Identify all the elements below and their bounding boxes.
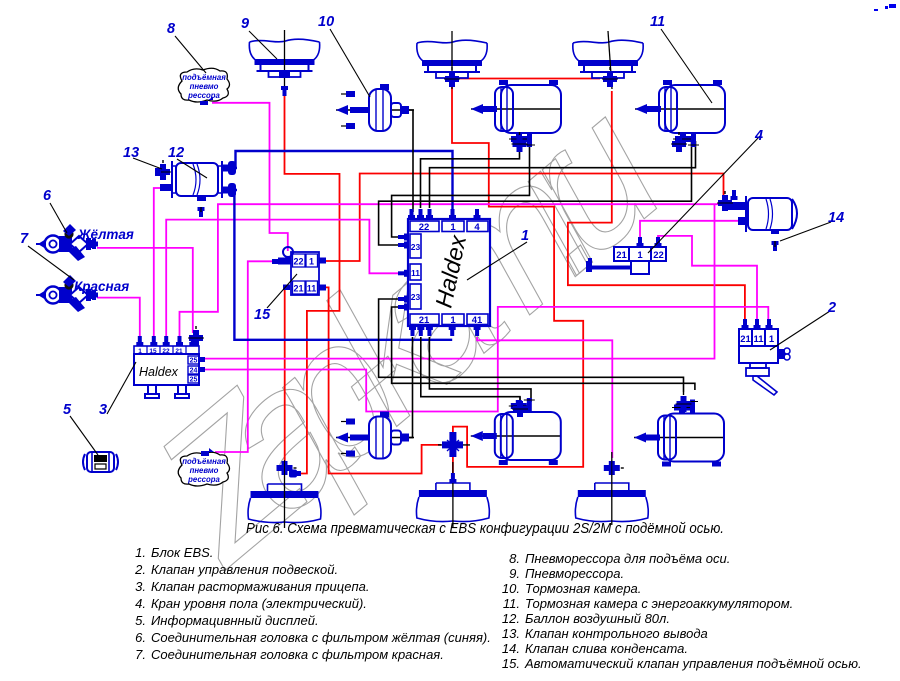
svg-text:6: 6 [43, 188, 52, 204]
wire magenta: floor level valve port1 to reservoir 14 [640, 221, 741, 242]
svg-text:9: 9 [241, 16, 249, 32]
svg-text:Соединительная головка с фильт: Соединительная головка с фильтром красна… [151, 647, 444, 662]
svg-text:Клапан управления подвеской.: Клапан управления подвеской. [151, 562, 338, 577]
svg-text:23: 23 [411, 242, 421, 252]
leader 6 [50, 203, 67, 233]
svg-text:11: 11 [650, 14, 665, 30]
svg-text:Автоматический клапан управлен: Автоматический клапан управления подъёмн… [524, 656, 862, 671]
svg-text:21: 21 [740, 334, 751, 345]
leader 4 [648, 136, 760, 253]
wire magenta: EBS port41 to lifting axle air spring [477, 337, 612, 458]
svg-text:Пневморессора для подъёма оси.: Пневморессора для подъёма оси. [525, 551, 730, 566]
reservoir left lower fitting [160, 184, 172, 191]
wire magenta: tee down to release valve port 25 [205, 204, 715, 358]
reservoir 14 [717, 190, 797, 251]
trailer release valve 3 [134, 326, 205, 398]
svg-text:10.: 10. [502, 581, 520, 596]
leader 2 [770, 311, 830, 350]
EBS unit 1 [398, 209, 490, 336]
bottom air spring left [248, 484, 321, 523]
wire magenta: red coupling head to valve 3 [97, 298, 140, 339]
wire black: EBS top to chamber C right port [430, 141, 696, 208]
bottom air spring centre [417, 483, 490, 522]
svg-text:Клапан слива конденсата.: Клапан слива конденсата. [525, 641, 688, 656]
svg-text:1: 1 [769, 334, 775, 345]
chamber 11 with energy accumulator top right [635, 80, 725, 147]
floor level valve 4 [586, 237, 666, 274]
air spring top no3 [573, 40, 643, 78]
svg-text:13.: 13. [502, 626, 520, 641]
leader 9 [249, 31, 277, 59]
leader 14 [780, 222, 831, 241]
information display 5 [83, 452, 118, 472]
svg-text:25: 25 [190, 377, 198, 384]
lever of valve 4 [590, 266, 631, 270]
wire black: EBS bottom to bottom chamber B port [421, 337, 520, 405]
svg-text:Клапан растормаживания прицепа: Клапан растормаживания прицепа. [151, 579, 369, 594]
coupling head 6 yellow [36, 224, 96, 261]
air spring 9 top no1 [249, 39, 319, 77]
svg-text:Haldex: Haldex [139, 365, 179, 379]
svg-text:1: 1 [637, 250, 643, 261]
svg-text:Баллон воздушный 80л.: Баллон воздушный 80л. [525, 611, 670, 626]
corner mark [874, 4, 896, 11]
svg-text:14: 14 [828, 210, 844, 226]
svg-text:4: 4 [474, 222, 480, 233]
leader 3 [107, 362, 136, 414]
leader 13 [133, 158, 162, 169]
wire magenta: top lifting air bag cloud to valve 15 [212, 103, 288, 251]
svg-text:Красная: Красная [74, 279, 129, 294]
svg-text:11: 11 [753, 334, 764, 345]
test valve 13 and reservoir 12 [155, 160, 236, 217]
lifting axle cloud label bottom [178, 448, 229, 486]
EBS stubs [408, 209, 415, 219]
bottom centre brake chamber [336, 412, 414, 459]
svg-text:рессора: рессора [187, 91, 220, 100]
bottom chamber with accumulator left [471, 398, 561, 465]
leader 7 [28, 246, 74, 280]
wire black: EBS left 23b to bottom right chamber port1 [379, 299, 684, 392]
svg-text:15: 15 [254, 307, 271, 323]
svg-text:14.: 14. [502, 641, 520, 656]
leader 12 [177, 159, 207, 178]
svg-text:11: 11 [307, 284, 317, 294]
svg-text:23: 23 [411, 292, 421, 302]
svg-text:9.: 9. [509, 566, 520, 581]
svg-text:21: 21 [419, 315, 430, 326]
svg-text:1: 1 [450, 222, 456, 233]
svg-text:Клапан контрольного вывода: Клапан контрольного вывода [525, 626, 708, 641]
svg-text:8: 8 [167, 21, 176, 37]
wire magenta: yellow coupling head to valve 3 [97, 248, 193, 333]
wire magenta: valve 3 supply to reservoir 14 [180, 204, 724, 339]
bottom air spring right (lifting axle) [575, 483, 648, 522]
svg-text:4: 4 [754, 128, 763, 144]
svg-text:2.: 2. [134, 562, 146, 577]
svg-text:22: 22 [293, 257, 303, 267]
wire red: cross fitting down to bottom centre air spring [452, 457, 454, 477]
legs [145, 385, 159, 398]
svg-text:5: 5 [63, 402, 72, 418]
wire red: top air spring 9 net to bottom-left air spring side port [285, 86, 340, 474]
wire red: valve 15 port1 to reservoir 14 [320, 174, 724, 262]
wire black: chamber 10 to EBS top port 22a [406, 110, 413, 212]
svg-text:Блок EBS.: Блок EBS. [151, 545, 213, 560]
wire black: EBS left 23a2 to chamber C left port [379, 141, 692, 245]
wire magenta: valve 3 port 24 to suspension valve 2 port 1 [205, 307, 768, 412]
svg-text:22: 22 [653, 250, 664, 261]
upper left port with test valve [728, 202, 746, 210]
svg-text:25: 25 [190, 358, 198, 365]
svg-text:1: 1 [450, 315, 456, 326]
svg-text:15: 15 [149, 348, 157, 355]
svg-text:13: 13 [123, 145, 139, 161]
svg-text:11.: 11. [503, 596, 520, 611]
wire black: EBS bottom to bottom chamber B port2 [429, 337, 531, 402]
svg-text:Тормозная камера с энергоаккум: Тормозная камера с энергоаккумулятором. [525, 596, 793, 611]
wire red: air spring 3 drop to suspension valve 2 port 21 [568, 91, 745, 324]
svg-text:11: 11 [411, 268, 420, 278]
svg-text:21: 21 [293, 284, 303, 294]
svg-text:Соединительная головка с фильт: Соединительная головка с фильтром жёлтая… [151, 630, 491, 645]
svg-text:24: 24 [190, 368, 198, 375]
svg-text:12: 12 [168, 145, 184, 161]
wire blue: reservoir 12 to EBS bottom port 1 [234, 190, 452, 340]
coupling head 7 red [36, 275, 96, 312]
svg-text:подъёмная: подъёмная [182, 457, 226, 466]
leader 11 [661, 29, 712, 103]
wire black: EBS bottom to bottom centre chamber [407, 337, 413, 438]
lower left port [738, 217, 747, 225]
leader 1 [467, 242, 527, 280]
svg-text:21: 21 [175, 348, 183, 355]
svg-text:1: 1 [521, 228, 529, 244]
air spring top no2 [417, 40, 487, 78]
svg-text:Кран уровня пола (электрически: Кран уровня пола (электрический). [151, 596, 367, 611]
svg-text:3.: 3. [135, 579, 146, 594]
chamber B with energy accumulator top left [471, 80, 561, 147]
wire magenta: floor level valve port22 to valve 2 port 11 [658, 236, 757, 324]
svg-text:12.: 12. [502, 611, 520, 626]
svg-text:22: 22 [162, 348, 170, 355]
svg-text:5.: 5. [135, 613, 146, 628]
reservoir drain fitting [198, 207, 205, 217]
brake chamber 10 top [336, 84, 414, 131]
lifting axle cloud label top [178, 68, 229, 105]
right ports 25 24 25 [188, 356, 199, 364]
bottom chamber with accumulator right [634, 400, 724, 467]
svg-text:рессора: рессора [187, 475, 220, 484]
svg-text:1: 1 [138, 348, 142, 355]
wire red: air spring 8 supply from valve 15 port21 down to left bottom air spring [284, 290, 286, 461]
svg-text:21: 21 [616, 250, 627, 261]
svg-text:10: 10 [318, 14, 334, 30]
svg-text:15.: 15. [502, 656, 520, 671]
svg-text:7: 7 [20, 231, 29, 247]
wire blue: reservoir 12 to EBS top port 1 [236, 151, 453, 212]
svg-text:8.: 8. [509, 551, 520, 566]
svg-text:Тормозная камера.: Тормозная камера. [525, 581, 641, 596]
wire red: air spring 2 drop to cross fitting at bottom [452, 86, 583, 467]
wire red: top air springs 2-3 interconnect [460, 78, 600, 80]
wire magenta: reservoir 12 to valve 3 [154, 188, 161, 339]
svg-text:1: 1 [309, 257, 314, 267]
svg-text:4.: 4. [135, 596, 146, 611]
svg-text:6.: 6. [135, 630, 146, 645]
wire magenta: valve 15 port22 to bottom cloud [215, 261, 279, 452]
right elbows [223, 161, 236, 175]
leader 5 [70, 416, 98, 455]
leader 15 [267, 274, 297, 308]
wire black: EBS left 23a to chamber B service port [392, 141, 530, 237]
svg-text:подъёмная: подъёмная [182, 73, 226, 82]
svg-text:22: 22 [419, 222, 430, 233]
svg-text:Информацивнный дисплей.: Информацивнный дисплей. [151, 613, 319, 628]
svg-text:пневмо: пневмо [190, 466, 219, 475]
svg-text:41: 41 [472, 315, 483, 326]
valve 15 automatic lift axle valve [272, 247, 326, 295]
condensate drain valve 14 [772, 241, 779, 251]
leader 8 [175, 36, 206, 73]
wire magenta: valve 3 to EBS port 11 [166, 220, 400, 339]
wire black: EBS left 23b2 to bottom right chamber port2 [392, 307, 695, 390]
wire black: EBS top to chamber B left port [421, 141, 520, 208]
svg-text:Жёлтая: Жёлтая [77, 227, 134, 242]
suspension control valve 2 [739, 319, 790, 395]
svg-text:2: 2 [827, 300, 836, 316]
svg-text:пневмо: пневмо [190, 82, 219, 91]
wire red: valve 15 port 11 to cross fitting [320, 287, 441, 473]
svg-text:Рис 6. Схема превматическая с: Рис 6. Схема превматическая с EBS конфиг… [246, 521, 724, 537]
svg-text:7.: 7. [135, 647, 146, 662]
test valve 13 fitting [155, 160, 171, 180]
leader 10 [330, 29, 370, 97]
legend [134, 545, 861, 671]
watermark zap-kam.ru [112, 61, 699, 603]
svg-text:Пневморессора.: Пневморессора. [525, 566, 624, 581]
svg-text:1.: 1. [135, 545, 146, 560]
cross fitting [438, 432, 470, 457]
svg-text:3: 3 [99, 402, 107, 418]
